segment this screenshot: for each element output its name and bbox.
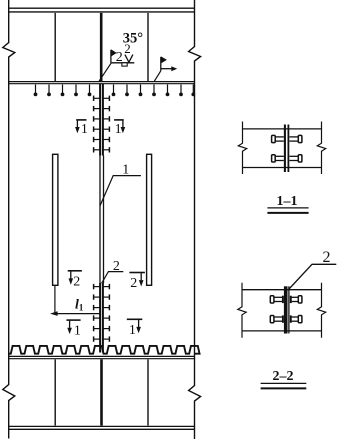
bottom beam top flange	[9, 356, 195, 358]
section mark 2 right	[129, 273, 145, 292]
svg-text:2: 2	[124, 41, 131, 56]
bottom beam web splice line	[100, 359, 103, 425]
svg-text:1: 1	[74, 324, 81, 339]
profiled steel deck	[9, 346, 200, 354]
field weld flag with arrow (right)	[154, 56, 177, 81]
section 1-1 plate bottom face	[243, 167, 322, 169]
section 2-2 bolts lower row	[270, 315, 302, 322]
right panel edge (break line)	[189, 0, 201, 439]
section 2-2 right break edge	[317, 283, 325, 338]
weld seam lower segment (detail 2)	[100, 283, 103, 353]
V-groove weld symbol	[125, 55, 133, 63]
section title 2-2	[261, 369, 307, 389]
label 2 with leader (section 2-2 weld)	[288, 249, 336, 290]
svg-text:1: 1	[81, 122, 88, 137]
backing bar symbol	[122, 63, 127, 66]
left panel edge (break line)	[3, 0, 15, 439]
section 1-1 plate top face	[243, 128, 322, 130]
section 2-2 left break edge	[238, 283, 246, 338]
section mark 1 upper-right	[114, 120, 125, 137]
left erection plate	[53, 154, 58, 285]
svg-text:1: 1	[129, 323, 136, 338]
svg-text:l1: l1	[75, 298, 84, 313]
top beam web splice line	[100, 13, 103, 81]
section mark 1 lower-left	[66, 320, 81, 339]
bottom beam stiffener (left)	[54, 359, 56, 425]
top beam stiffener (left)	[54, 13, 56, 81]
section 2-2 splice plate line	[288, 286, 290, 333]
extension line from plate bottom	[54, 286, 56, 314]
weld seam upper segment (detail 2)	[100, 84, 103, 156]
bottom beam stiffener (right)	[147, 359, 149, 425]
section 1-1 bolts lower row	[272, 155, 302, 162]
section mark 1 lower-right	[127, 319, 143, 338]
top beam stiffener (right)	[147, 13, 149, 81]
shear studs under top beam	[34, 85, 196, 97]
weld seam lower ticks	[94, 284, 110, 342]
svg-text:2–2: 2–2	[273, 369, 294, 384]
bottom beam bottom flange	[9, 426, 195, 429]
detail label 1 with leader	[100, 162, 141, 206]
weld leader to seam top	[99, 63, 112, 82]
section 1-1 left break edge	[238, 122, 246, 175]
dimension line l1	[50, 311, 101, 316]
section 2-2 plate bottom face	[242, 330, 322, 332]
right erection plate	[147, 154, 152, 285]
weld reference line	[111, 62, 134, 64]
section title 1-1	[267, 194, 308, 213]
field weld flag (left)	[111, 49, 117, 63]
svg-text:2: 2	[73, 274, 80, 289]
section 1-1 right break edge	[317, 122, 325, 175]
detail label 2 with leader	[102, 259, 124, 283]
section 1-1 splice plates at joint	[285, 125, 289, 173]
weld joint middle (plain seam, detail 1)	[100, 156, 104, 284]
section mark 1 upper-left	[75, 120, 88, 137]
section 1-1 bolts upper row	[272, 135, 302, 142]
section 2-2 plate top face	[242, 289, 322, 291]
section 2-2 bolts upper row	[270, 296, 302, 303]
svg-text:1: 1	[115, 122, 122, 137]
weld seam upper ticks	[94, 96, 110, 153]
svg-text:2: 2	[130, 276, 137, 291]
section 2-2 weld at joint (filled)	[284, 286, 288, 333]
svg-text:2: 2	[323, 249, 331, 266]
section mark 2 left	[68, 271, 82, 290]
top beam bottom flange	[9, 82, 195, 84]
top beam top flange	[9, 8, 195, 12]
svg-text:1–1: 1–1	[277, 194, 298, 209]
